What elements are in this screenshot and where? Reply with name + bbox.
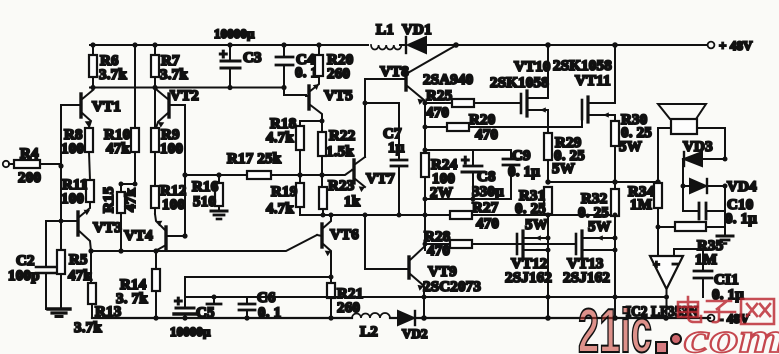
resistor R16 — [192, 175, 223, 211]
resistor R12 — [151, 183, 186, 214]
resistor R15 — [101, 187, 139, 251]
mosfet VT12 — [505, 231, 552, 286]
svg-text:2SJ162: 2SJ162 — [563, 270, 610, 286]
svg-text:10000μ: 10000μ — [170, 324, 211, 339]
wire y150 — [425, 149, 511, 151]
terminal -48V — [708, 311, 750, 326]
resistor R34 — [628, 183, 662, 256]
transistor VT2 — [156, 88, 199, 129]
svg-text:3.7k: 3.7k — [160, 67, 188, 83]
resistor R24 — [421, 153, 458, 201]
svg-text:VT2: VT2 — [170, 88, 199, 104]
resistor R20 gate — [425, 112, 582, 143]
op-amp IC2 — [626, 249, 712, 320]
diode VD1 — [402, 22, 432, 53]
ground R16 — [211, 211, 227, 219]
label 10000u top — [214, 26, 255, 41]
resistor R11 — [61, 177, 94, 207]
svg-text:2SA940: 2SA940 — [423, 72, 473, 88]
svg-text:47k: 47k — [123, 188, 139, 212]
wire VT9 base branch — [365, 215, 409, 269]
svg-text:−: − — [672, 257, 679, 271]
svg-text:47k: 47k — [106, 141, 130, 157]
svg-text:470: 470 — [476, 216, 499, 232]
svg-text:5W: 5W — [588, 219, 611, 235]
terminal +48V — [708, 38, 753, 53]
svg-text:CI1: CI1 — [714, 272, 739, 288]
svg-text:VD3: VD3 — [683, 139, 713, 155]
svg-text:VT4: VT4 — [124, 228, 153, 244]
inductor L1 — [371, 22, 401, 50]
svg-text:R4: R4 — [20, 146, 39, 162]
resistor R27 — [425, 200, 615, 232]
resistor R13 — [74, 251, 121, 336]
svg-text:1.5k: 1.5k — [326, 144, 354, 160]
svg-text:L1: L1 — [376, 22, 394, 38]
capacitor C8 — [461, 150, 504, 200]
svg-text:3. 7k: 3. 7k — [116, 291, 148, 307]
transistor VT3 — [61, 202, 122, 251]
svg-text:510: 510 — [193, 194, 216, 210]
mosfet VT13 — [563, 231, 615, 286]
wire bottom -48V rail — [92, 317, 710, 319]
svg-text:5W: 5W — [552, 161, 575, 177]
diode VD3 — [683, 139, 725, 186]
svg-text:C8: C8 — [477, 169, 496, 185]
svg-text:1μ: 1μ — [388, 140, 405, 156]
svg-text:3.7k: 3.7k — [74, 320, 102, 336]
svg-text:VT3: VT3 — [93, 220, 122, 236]
resistor R32 — [578, 182, 619, 318]
svg-text:VT8: VT8 — [380, 64, 409, 80]
svg-text:330μ: 330μ — [472, 184, 504, 200]
svg-text:5W: 5W — [525, 217, 548, 233]
transistor VT1 — [62, 90, 121, 127]
svg-text:470: 470 — [426, 105, 449, 121]
resistor R20 top — [315, 45, 353, 82]
svg-text:C6: C6 — [257, 290, 276, 306]
resistor R21 — [327, 277, 363, 318]
diode VD4 — [683, 179, 757, 195]
svg-text:R17 25k: R17 25k — [227, 151, 282, 167]
svg-text:100: 100 — [61, 141, 84, 157]
capacitor C9 — [503, 148, 540, 199]
svg-text:1M: 1M — [630, 197, 652, 213]
svg-text:1k: 1k — [344, 194, 361, 210]
svg-text:R25: R25 — [426, 88, 452, 104]
capacitor C4 — [276, 45, 318, 88]
resistor R25 — [425, 88, 521, 121]
resistor R5 — [57, 250, 92, 309]
svg-text:com: com — [684, 316, 779, 354]
mosfet VT11 — [553, 58, 615, 127]
capacitor C7 — [365, 103, 407, 215]
capacitor C10 — [683, 186, 757, 227]
transistor VT6 — [317, 215, 359, 277]
svg-text:R23: R23 — [328, 178, 354, 194]
wire feedback node vertical — [184, 105, 186, 236]
svg-text:260: 260 — [327, 66, 350, 82]
wire top +48V rail — [90, 44, 707, 46]
wire VT10 drain/source — [547, 45, 549, 133]
svg-text:3.7k: 3.7k — [99, 67, 127, 83]
wire VT5 emitter split — [300, 119, 325, 133]
svg-text:0. 1μ: 0. 1μ — [725, 211, 757, 227]
resistor R23 — [319, 178, 361, 215]
svg-text:C5: C5 — [196, 305, 215, 321]
resistor R14 — [116, 251, 160, 318]
resistor R10 — [104, 45, 139, 192]
resistor R19 — [266, 175, 304, 217]
resistor R7 — [151, 45, 188, 88]
svg-text:2SK1058: 2SK1058 — [553, 58, 612, 74]
wire feedback y175 — [185, 170, 352, 175]
svg-text:VT7: VT7 — [366, 171, 395, 187]
svg-text:VD2: VD2 — [402, 326, 428, 341]
svg-text:0. 1μ: 0. 1μ — [508, 164, 540, 180]
node dots on bottom rail — [153, 315, 668, 321]
resistor R18 — [266, 116, 304, 175]
wire C5-C6 servo bus — [185, 297, 667, 304]
svg-text:R15: R15 — [101, 187, 117, 213]
svg-text:4.7k: 4.7k — [266, 130, 294, 146]
transistor VT7 — [352, 157, 395, 192]
svg-text:R16: R16 — [192, 179, 219, 195]
svg-text:100: 100 — [162, 197, 185, 213]
resistor R6 — [89, 45, 127, 88]
terminal input — [3, 161, 14, 167]
wire input node vertical — [46, 105, 61, 250]
svg-text:100: 100 — [160, 141, 183, 157]
svg-text:C3: C3 — [243, 50, 262, 66]
wire y199 — [425, 198, 511, 200]
svg-text:VT10: VT10 — [514, 59, 551, 75]
capacitor C5 — [170, 277, 215, 339]
svg-text:2SJ162: 2SJ162 — [505, 270, 552, 286]
transistor VT5 — [306, 81, 353, 121]
mosfet VT10 — [490, 59, 551, 116]
svg-text:R22: R22 — [329, 128, 355, 144]
svg-text:R19: R19 — [271, 184, 297, 200]
svg-text:VT9: VT9 — [428, 264, 457, 280]
svg-text:47k: 47k — [68, 268, 92, 284]
capacitor C6 — [239, 290, 281, 321]
svg-text:4.7k: 4.7k — [266, 201, 294, 217]
speaker — [658, 104, 725, 183]
resistor R31 — [515, 187, 552, 318]
svg-text:2SC2073: 2SC2073 — [423, 279, 481, 295]
wire VAS-drive y251 — [91, 235, 317, 251]
svg-text:C9: C9 — [512, 148, 531, 164]
svg-text:+: + — [461, 153, 470, 169]
svg-text:C2: C2 — [16, 253, 35, 269]
node dots on top rail — [90, 42, 617, 48]
svg-text:+: + — [219, 47, 228, 63]
svg-text:+: + — [653, 257, 660, 271]
svg-text:R5: R5 — [69, 252, 88, 268]
wire emitter y277 — [185, 276, 331, 278]
svg-text:VT6: VT6 — [330, 227, 359, 243]
svg-text:10000μ: 10000μ — [214, 26, 255, 41]
ground R35 — [717, 236, 733, 244]
svg-text:VD1: VD1 — [402, 22, 432, 38]
svg-text:0. 1: 0. 1 — [258, 305, 281, 321]
svg-text:VT1: VT1 — [92, 99, 121, 115]
svg-text:VT11: VT11 — [575, 73, 611, 89]
capacitor C3 — [219, 45, 262, 88]
resistor R29 — [544, 133, 585, 182]
wire base bus y215 — [300, 214, 424, 216]
svg-text:260: 260 — [337, 300, 360, 316]
svg-text:200: 200 — [18, 170, 41, 186]
diode VD2 — [398, 311, 428, 341]
wire collector bus y87 — [90, 88, 306, 96]
svg-text:100p: 100p — [8, 268, 40, 284]
resistor R4 — [14, 146, 61, 186]
capacitor C11 label — [712, 272, 744, 303]
wire VT7 collector to VT8 base — [365, 79, 406, 157]
svg-text:R20: R20 — [469, 112, 495, 128]
svg-text:1M: 1M — [695, 252, 717, 268]
svg-text:R27: R27 — [472, 200, 499, 216]
svg-text:L2: L2 — [360, 324, 378, 340]
wire output bus y182 — [548, 181, 658, 183]
svg-text:0. 25: 0. 25 — [515, 201, 546, 217]
svg-text:5W: 5W — [619, 139, 642, 155]
watermark 21ic — [578, 297, 779, 354]
transistor VT4 — [124, 214, 185, 251]
svg-text:+ 48V: + 48V — [719, 38, 753, 53]
transistor VT9 — [409, 244, 481, 318]
wire VT11 drain/source — [614, 45, 616, 121]
resistor R35 — [658, 211, 725, 268]
resistor R8 — [61, 127, 93, 180]
node input junctions — [58, 163, 63, 223]
svg-text:VT5: VT5 — [324, 88, 353, 104]
resistor R28 — [424, 229, 576, 259]
svg-text:2SK1058: 2SK1058 — [490, 75, 549, 91]
ground input — [48, 309, 70, 317]
svg-text:100: 100 — [61, 191, 84, 207]
svg-text:21ic: 21ic — [578, 297, 652, 354]
svg-text:470: 470 — [475, 127, 498, 143]
resistor R9 — [151, 88, 183, 187]
resistor R30 — [611, 112, 652, 182]
resistor R22 — [318, 128, 355, 187]
svg-text:VD4: VD4 — [727, 179, 757, 195]
resistor R17 — [227, 151, 282, 179]
capacitor C2 — [8, 221, 58, 309]
inductor L2 — [352, 313, 390, 340]
svg-text:+: + — [174, 294, 183, 310]
svg-text:470: 470 — [427, 243, 450, 259]
wire VT8 emitter column — [424, 103, 426, 250]
transistor VT8 — [380, 45, 473, 105]
